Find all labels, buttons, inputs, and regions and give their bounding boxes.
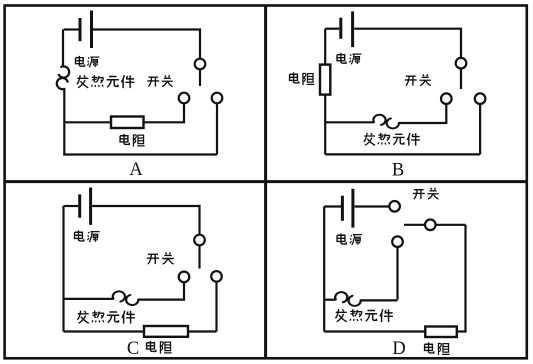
label 电阻 (D) (425, 342, 450, 355)
battery (B) long plate (351, 11, 354, 47)
switch lever (A) (199, 70, 201, 87)
label 发热元件 (B) (364, 133, 420, 146)
label 电源 (B) (337, 53, 361, 64)
wire from left contact down to resistor wire (144, 104, 185, 123)
heating element loops (C) (113, 291, 139, 305)
heating element loops (D) (335, 292, 361, 306)
left vertical wire (D) (323, 207, 325, 332)
switch contact circle left (B) (441, 93, 452, 104)
switch terminal circle top (D) (389, 201, 400, 212)
label 开关 (C) (147, 252, 174, 264)
wire heating element to left vertical (B) (325, 121, 374, 123)
switch pivot circle (D) (425, 220, 436, 231)
left vertical wire lower (B) (324, 95, 326, 155)
heating wire right segment (D) (360, 299, 397, 301)
switch contact circle lower (D) (392, 236, 403, 247)
battery (D) long plate (351, 189, 354, 228)
bottom wire right segment (C) (188, 330, 217, 332)
label 电阻 (C) (147, 341, 172, 354)
bottom wire left segment (D) (324, 330, 425, 332)
switch contact circle right (A) (212, 93, 223, 104)
heating element coil loop 2 (A) (57, 78, 68, 89)
wire left vertical top to battery (325, 28, 339, 30)
wire top-left to battery (64, 28, 79, 30)
wire right contact down to bottom wire (216, 104, 218, 155)
label 电源 (C) (75, 230, 100, 242)
battery (A) short plate (79, 18, 82, 41)
resistor R (B) body vertical (320, 65, 330, 95)
switch contact circle left (A) (179, 93, 190, 104)
wire heating element to left vertical (C) (64, 298, 114, 300)
resistor R (C) body (144, 326, 188, 337)
left vertical wire upper (A) (62, 30, 64, 67)
svg-text:B: B (392, 161, 404, 181)
switch lever with pivot circle (D) (404, 224, 425, 226)
label 开关 (A) (147, 75, 173, 86)
resistor R (A) body (111, 117, 144, 129)
wire pivot to right vertical corner (436, 224, 466, 226)
switch contact circle left (C) (179, 272, 190, 283)
wire right contact down to bottom wire (479, 104, 481, 154)
heating element coil loop 1 (A) (59, 66, 69, 77)
label 开关 (B) (405, 74, 431, 85)
bottom wire left segment (C) (64, 330, 145, 332)
left vertical wire upper (B) (324, 29, 326, 65)
bottom wire (A) (63, 153, 217, 155)
label 发热元件 (C) (77, 311, 134, 324)
label 电阻 (A) (120, 134, 145, 147)
horizontal divider (4, 180, 527, 183)
label 发热元件 (A) (77, 75, 134, 88)
wire heating element to left vertical (D) (324, 299, 335, 301)
switch lever (C) (198, 246, 200, 269)
resistor R (D) body (425, 327, 457, 338)
label 电源 (A) (76, 56, 100, 67)
battery (C) long plate (89, 188, 92, 225)
left vertical wire (C) (62, 206, 64, 332)
wire battery to top-right corner and down to switch (92, 206, 199, 235)
svg-text:C: C (127, 339, 139, 359)
wire lower contact down to heating wire corner (396, 247, 398, 300)
battery (A) long plate (90, 11, 93, 49)
wire left contact down to heating wire (138, 282, 184, 299)
left vertical wire lower (A) (63, 89, 65, 155)
battery (C) short plate (78, 194, 81, 217)
bottom wire (B) (325, 153, 480, 155)
label 发热元件 (D) (335, 309, 392, 322)
wire battery to top-right corner and down to switch (93, 30, 200, 59)
wire battery to switch terminal (355, 205, 390, 207)
switch contact circle right (B) (475, 93, 486, 104)
switch pivot circle (A) (195, 59, 206, 70)
wire battery to top-right corner and down to switch (354, 29, 461, 58)
battery (B) short plate (339, 18, 342, 39)
label 电阻 (B) (290, 72, 315, 85)
svg-text:D: D (392, 339, 405, 359)
heating element loops (B) (373, 115, 399, 129)
bottom wire right segment and right vertical (D) (457, 225, 466, 332)
wire resistor to left vertical (64, 121, 112, 123)
switch contact circle right (C) (211, 271, 222, 282)
switch lever (B) (460, 69, 462, 90)
switch pivot circle (C) (194, 235, 205, 246)
wire left corner to battery (324, 205, 341, 207)
svg-text:A: A (129, 160, 143, 180)
wire top-left to battery (64, 205, 79, 207)
label 电源 (D) (337, 233, 362, 245)
wire left contact down to heating wire (399, 104, 447, 123)
label 开关 (D) (413, 188, 439, 199)
battery (D) short plate (341, 196, 344, 221)
wire right contact down to bottom wire (215, 282, 217, 332)
vertical divider (264, 5, 267, 358)
switch pivot circle (B) (456, 58, 467, 69)
